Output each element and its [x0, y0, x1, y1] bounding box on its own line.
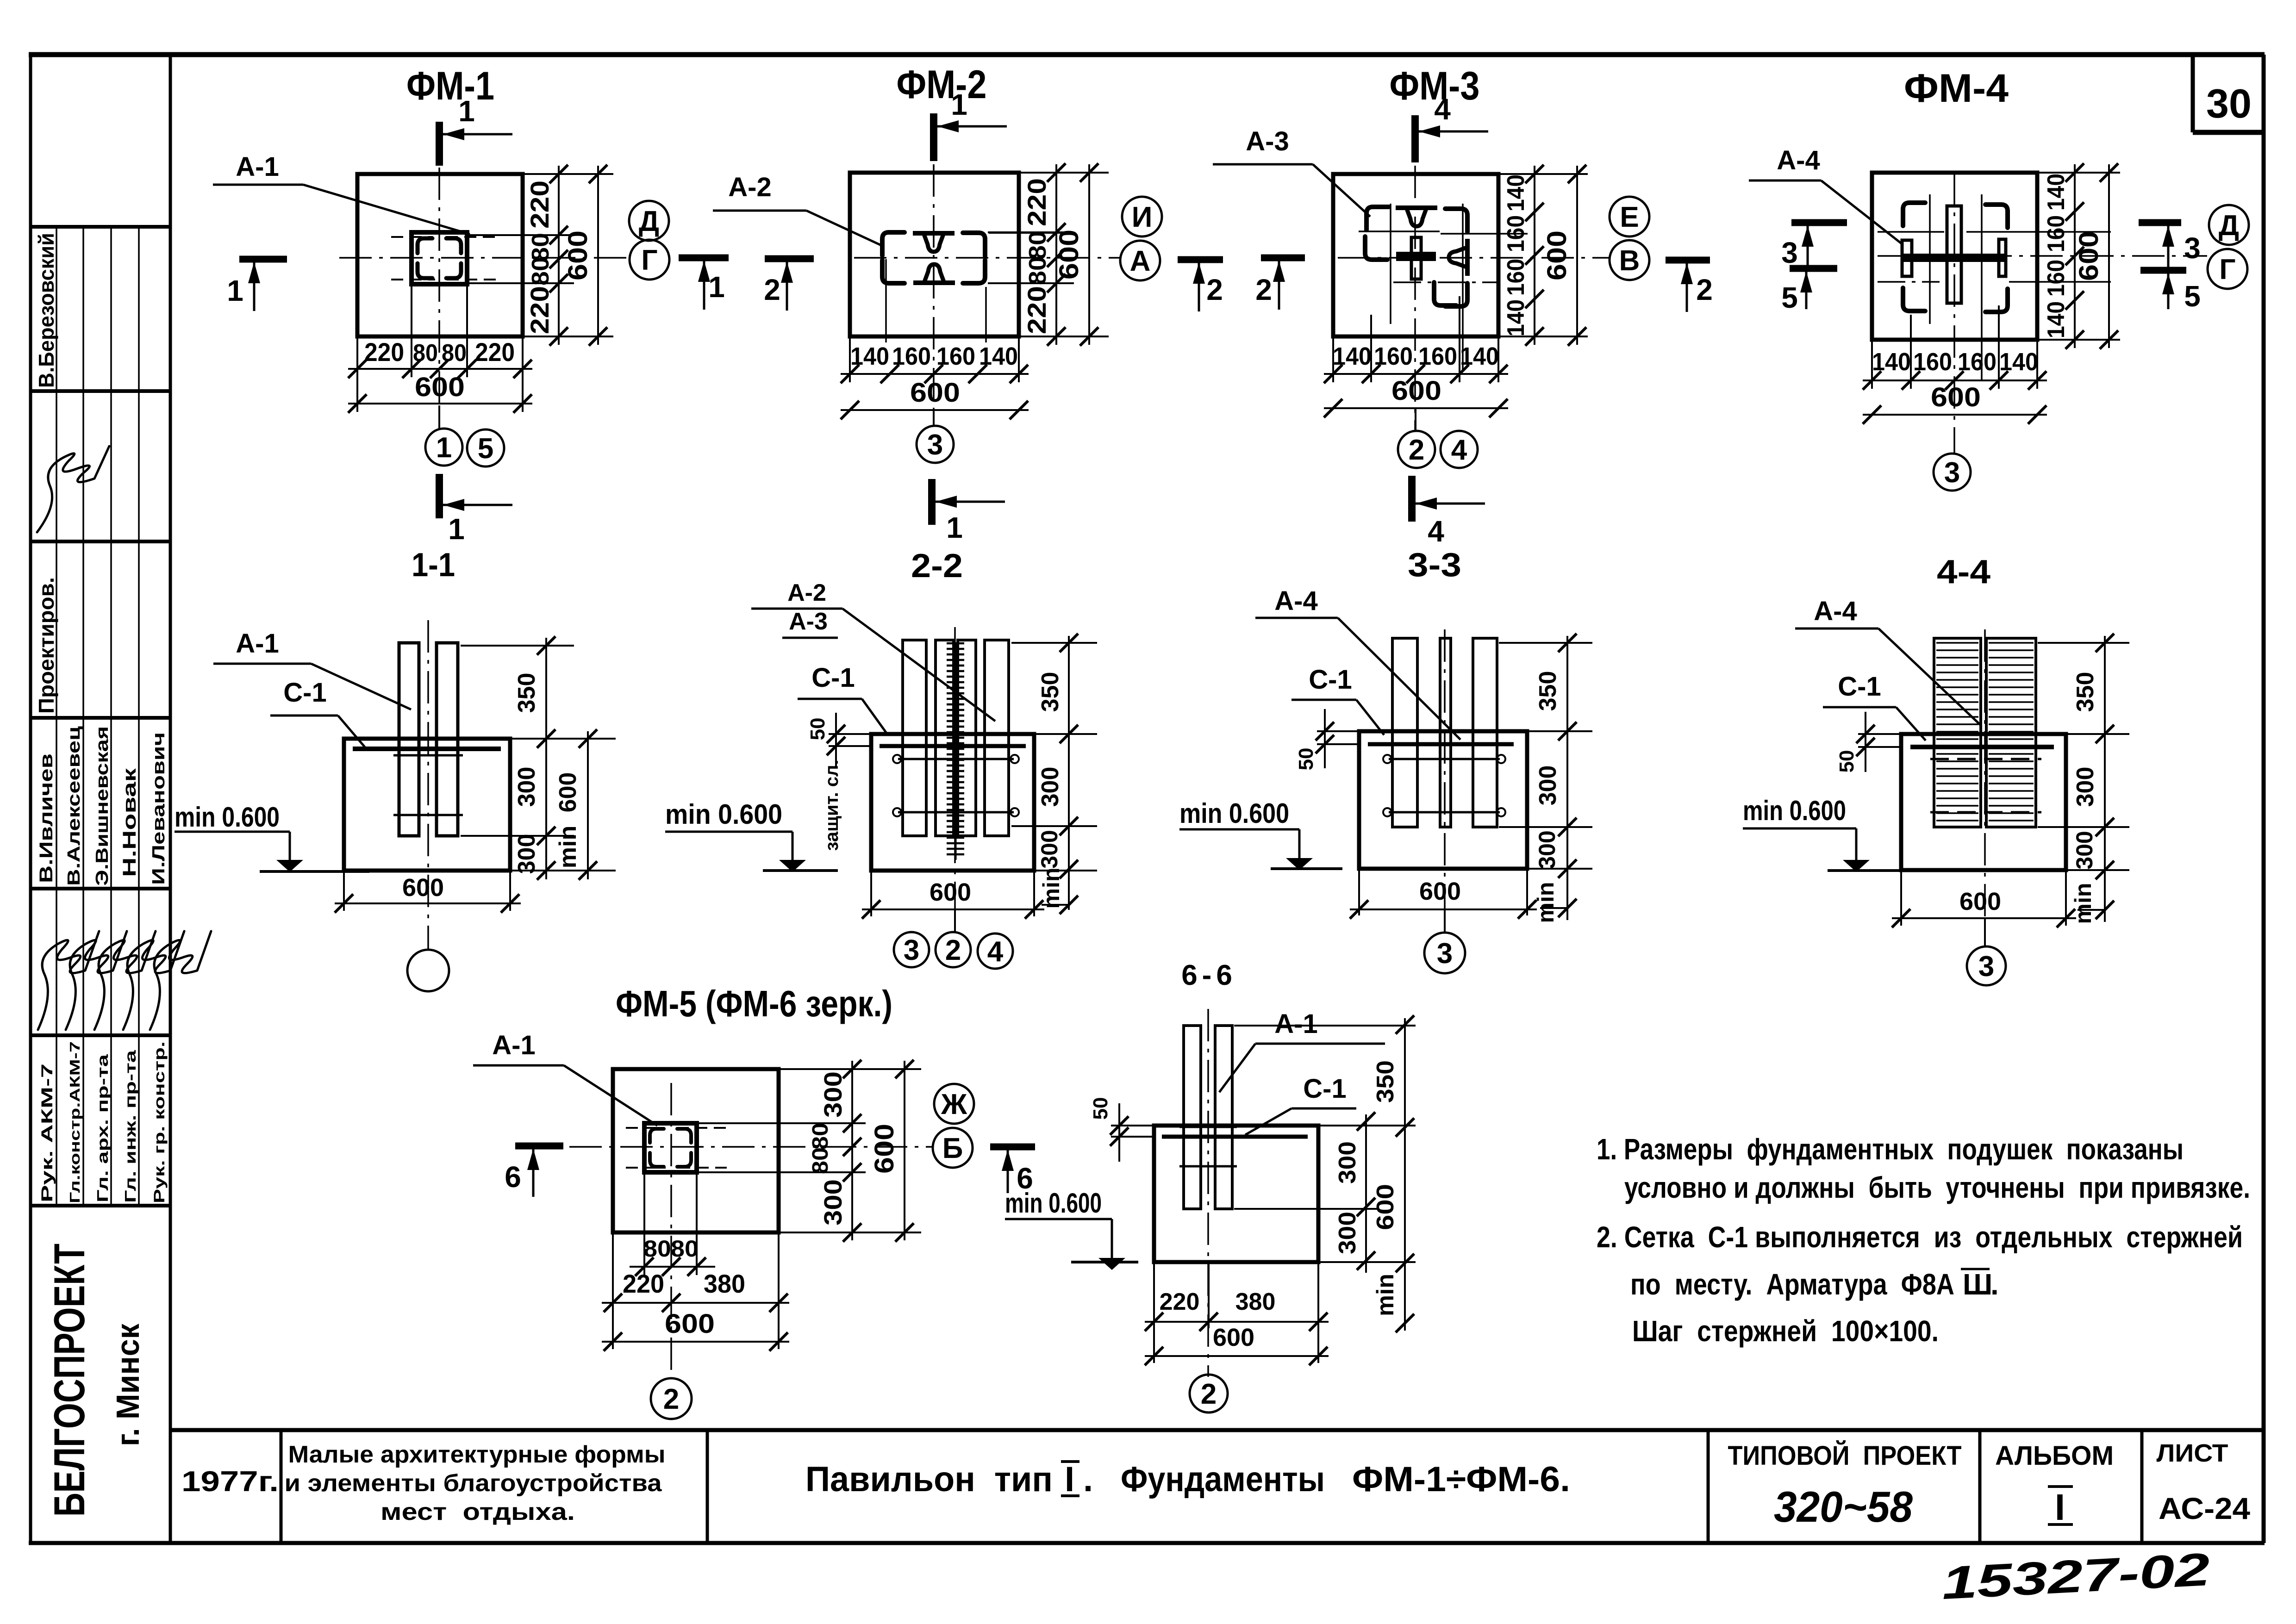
title block year 1977	[181, 1466, 279, 1498]
section 2-2 view	[0, 0, 0, 0]
svg-text:350: 350	[1535, 671, 1561, 711]
svg-text:160: 160	[1374, 342, 1413, 370]
svg-text:Павильон тип: Павильон тип	[805, 1460, 1053, 1499]
section title 4-4	[1937, 554, 1990, 591]
1-1 anchor bars A-1	[393, 643, 463, 836]
4-4 ribbed anchor bars A-4	[1930, 638, 2041, 827]
svg-text:С-1: С-1	[283, 678, 326, 708]
FM-3 section cut 4 bottom	[1412, 476, 1485, 548]
svg-text:Гл.констр.АКМ-7: Гл.констр.АКМ-7	[67, 1041, 83, 1203]
3-3 anchor bars A-4	[1383, 638, 1505, 827]
section title 2-2	[911, 548, 963, 585]
3-3 right dim line 350-300-300-min	[1533, 634, 1577, 923]
svg-text:г. Минск: г. Минск	[110, 1323, 146, 1446]
svg-text:140: 140	[2043, 301, 2070, 338]
FM-3 leader A-3	[1213, 126, 1370, 217]
svg-text:50: 50	[1295, 748, 1317, 771]
svg-text:160: 160	[1418, 342, 1457, 370]
svg-text:по месту. Арматура Ф8А: по месту. Арматура Ф8А	[1630, 1268, 1954, 1301]
svg-text:350: 350	[2072, 672, 2099, 712]
svg-text:мест отдыха.: мест отдыха.	[381, 1499, 575, 1525]
svg-text:3: 3	[927, 429, 943, 461]
section title 3-3	[1408, 547, 1461, 584]
svg-text:1: 1	[951, 88, 967, 121]
section 3-3 view	[0, 0, 0, 0]
svg-text:I: I	[1065, 1460, 1074, 1499]
svg-text:80: 80	[527, 257, 554, 286]
FM-1 section cut 1 top	[439, 94, 512, 166]
svg-text:min 0.600: min 0.600	[1179, 798, 1289, 829]
FM-3 anchor A-3	[1365, 207, 1467, 306]
svg-text:220: 220	[623, 1269, 664, 1298]
svg-text:и элементы благоустройства: и элементы благоустройства	[285, 1470, 662, 1497]
svg-text:600: 600	[1931, 382, 1981, 412]
svg-text:380: 380	[1235, 1288, 1276, 1315]
6-6 right dim line 350-600-min	[1372, 1015, 1414, 1332]
FM-1 title	[406, 64, 494, 108]
svg-text:Ш: Ш	[1963, 1268, 1992, 1301]
svg-text:2: 2	[945, 934, 961, 966]
svg-text:защит. сл.: защит. сл.	[822, 759, 842, 851]
svg-text:min 0.600: min 0.600	[665, 799, 782, 830]
FM-1 centerlines	[339, 168, 629, 429]
svg-text:1: 1	[227, 274, 243, 307]
strip org Belgosproekt Minsk	[45, 1244, 146, 1517]
FM-1 bottom dim line 220-80-80-220	[348, 337, 532, 378]
FM-3 bottom dim extension lines	[1333, 296, 1498, 382]
svg-text:Рук. гр. констр.: Рук. гр. констр.	[151, 1041, 168, 1203]
svg-text:80: 80	[413, 340, 438, 367]
FM-4 right dim line 600	[2074, 163, 2118, 349]
svg-text:140: 140	[1460, 342, 1499, 370]
FM-1 axis circle G	[630, 240, 669, 280]
FM-3 title	[1390, 64, 1480, 108]
plan FM-5	[0, 0, 0, 0]
FM-5 bottom dim line 220-380	[602, 1269, 789, 1312]
svg-text:140: 140	[1872, 348, 1911, 376]
FM-4 pad outline	[1872, 173, 2037, 340]
strip name V.Berezovskiy	[34, 233, 58, 388]
FM-1 right dim line 220-80-80-220	[525, 165, 568, 346]
svg-text:В.Ивличев: В.Ивличев	[36, 753, 56, 883]
svg-text:А-4: А-4	[1777, 145, 1820, 175]
FM-2 position circle 3	[917, 410, 954, 463]
title block list AC-24	[2157, 1439, 2251, 1525]
svg-text:ФМ-2: ФМ-2	[897, 62, 987, 107]
plan FM-1	[0, 0, 0, 0]
strip job titles	[38, 1041, 168, 1203]
FM-2 axis circle I	[1122, 197, 1162, 236]
svg-text:350: 350	[1372, 1060, 1399, 1103]
FM-5 right dim extension lines	[699, 1069, 921, 1232]
svg-text:600: 600	[555, 772, 581, 813]
FM-5 bottom dim line 600	[602, 1309, 789, 1351]
svg-text:50: 50	[1089, 1097, 1112, 1120]
6-6 bottom dim line 220-380	[1145, 1262, 1329, 1363]
svg-text:600: 600	[1372, 1184, 1399, 1230]
handwritten archive number 15327-02	[1940, 1543, 2211, 1609]
FM-1 section cut 1 left	[227, 259, 287, 311]
svg-text:min: min	[1533, 882, 1559, 923]
FM-2 section cut 1 top	[934, 88, 1007, 161]
FM-4 section cut 3 right	[2139, 223, 2201, 271]
FM-2 anchor A-2	[882, 232, 1074, 283]
svg-text:300: 300	[1334, 1212, 1361, 1254]
svg-text:6-6: 6-6	[1181, 959, 1237, 991]
svg-text:300: 300	[819, 1071, 847, 1118]
FM-2 centerlines	[854, 164, 1120, 426]
svg-text:220: 220	[1160, 1288, 1200, 1315]
6-6 ground level min 0.600	[1005, 1188, 1138, 1270]
1-1 leader C-1	[270, 678, 365, 747]
6-6 leader C-1	[1245, 1074, 1356, 1135]
2-2 leader A-2 A-3	[751, 579, 995, 721]
svg-text:80: 80	[671, 1236, 699, 1262]
2-2 leader C-1	[798, 663, 888, 735]
FM-5 section cut 6 left	[505, 1146, 563, 1197]
FM-5 leader A-1	[473, 1030, 657, 1126]
FM-2 section cut 2 left	[764, 259, 814, 311]
svg-text:3: 3	[904, 934, 919, 966]
6-6 right dim line 300-300	[1334, 1112, 1375, 1273]
FM-1 right dim line 600	[563, 165, 607, 346]
FM-5 anchor A-1	[626, 1123, 727, 1172]
FM-1 bottom dim line 600	[348, 372, 532, 413]
section 4-4 view	[0, 0, 0, 0]
FM-2 section cut 2 right	[1178, 260, 1223, 311]
svg-text:А-4: А-4	[1274, 586, 1317, 616]
svg-text:1: 1	[458, 94, 475, 128]
2-2 right dim line 350-300-300-min	[1036, 634, 1078, 914]
2-2 anchor bars A-2 A-3	[893, 640, 1019, 836]
svg-text:600: 600	[665, 1309, 715, 1339]
svg-text:БЕЛГОСПРОЕКТ: БЕЛГОСПРОЕКТ	[45, 1244, 94, 1517]
svg-text:300: 300	[1334, 1141, 1361, 1184]
FM-2 right dim line 600	[1054, 163, 1098, 346]
svg-text:АС-24: АС-24	[2159, 1491, 2250, 1525]
svg-text:В.Березовский: В.Березовский	[34, 233, 58, 388]
svg-text:4: 4	[1451, 434, 1467, 466]
svg-text:600: 600	[1054, 230, 1084, 280]
2-2 protective layer dim 50	[806, 713, 869, 851]
svg-text:ТИПОВОЙ ПРОЕКТ: ТИПОВОЙ ПРОЕКТ	[1728, 1441, 1962, 1471]
FM-2 title	[897, 62, 987, 107]
svg-text:А-1: А-1	[492, 1030, 535, 1060]
FM-5 pad outline	[613, 1069, 779, 1232]
svg-text:80: 80	[1024, 256, 1051, 285]
4-4 ground level min 0.600	[1743, 795, 1902, 872]
svg-text:В: В	[1619, 245, 1640, 277]
left title strip grid	[31, 55, 170, 1543]
FM-3 axis circle E	[1610, 197, 1649, 236]
FM-4 axis circle G	[2208, 249, 2247, 289]
notes text	[1597, 1132, 2250, 1348]
FM-4 bottom dim line 600	[1863, 382, 2047, 424]
svg-text:600: 600	[1959, 888, 2001, 915]
FM-4 bottom dim extension lines	[1872, 305, 2037, 389]
svg-text:ФМ-1: ФМ-1	[406, 64, 494, 108]
3-3 position circle 3	[1424, 909, 1465, 973]
svg-text:1: 1	[436, 432, 452, 464]
FM-3 position circle 4	[1441, 431, 1478, 468]
title block project theme text	[285, 1441, 666, 1525]
1-1 centerline	[427, 620, 429, 949]
svg-text:30: 30	[2206, 81, 2252, 126]
2-2 ground level min 0.600	[665, 799, 838, 872]
svg-text:1977г.: 1977г.	[181, 1466, 279, 1498]
strip label Proektirov	[34, 577, 58, 714]
FM-4 title	[1904, 66, 2009, 111]
svg-text:3: 3	[1978, 951, 1994, 983]
svg-text:160: 160	[1503, 215, 1529, 252]
FM-1 position circle 1	[425, 405, 462, 466]
section 6-6 view	[0, 0, 0, 0]
svg-text:600: 600	[415, 372, 465, 402]
FM-3 right dim line 140-160-160-140	[1503, 165, 1544, 346]
svg-text:600: 600	[1419, 877, 1461, 905]
4-4 protective layer dim 50	[1835, 712, 1899, 772]
FM-1 section cut 1 right	[679, 258, 729, 310]
svg-text:Малые архитектурные формы: Малые архитектурные формы	[288, 1441, 666, 1468]
svg-text:4: 4	[987, 936, 1004, 968]
svg-text:350: 350	[1037, 672, 1064, 712]
title block album I	[1995, 1441, 2114, 1528]
svg-text:А-2: А-2	[787, 579, 826, 606]
svg-text:2: 2	[1201, 1378, 1217, 1410]
strip signature scribble	[37, 446, 109, 532]
FM-5 right dim line 600	[869, 1060, 914, 1242]
svg-text:220: 220	[1022, 286, 1051, 334]
2-2 bottom dim line 600	[862, 872, 1044, 919]
svg-text:ФМ-5 (ФМ-6 зерк.): ФМ-5 (ФМ-6 зерк.)	[616, 983, 892, 1024]
FM-1 leader A-1	[213, 152, 470, 234]
svg-text:АЛЬБОМ: АЛЬБОМ	[1995, 1441, 2114, 1471]
svg-text:3: 3	[1781, 236, 1798, 269]
svg-text:140: 140	[1503, 174, 1529, 212]
svg-text:80: 80	[643, 1236, 671, 1262]
FM-5 axis circle Zh	[934, 1084, 974, 1124]
strip designer names	[36, 726, 168, 886]
svg-text:2: 2	[764, 273, 780, 306]
2-2 threaded rod	[947, 643, 964, 860]
svg-text:.: .	[1083, 1460, 1093, 1499]
4-4 leader A-4	[1795, 596, 1981, 726]
svg-text:300: 300	[1535, 765, 1561, 806]
plan FM-2	[0, 0, 0, 0]
svg-text:Гл. инж. пр-та: Гл. инж. пр-та	[122, 1050, 139, 1203]
FM-4 right dim line 140-160-160-140	[2043, 163, 2084, 349]
3-3 ground level min 0.600	[1179, 798, 1342, 870]
svg-text:Гл. арх. пр-та: Гл. арх. пр-та	[94, 1054, 111, 1202]
FM-1 position circle 5	[467, 429, 504, 467]
svg-text:300: 300	[1036, 830, 1062, 868]
svg-text:2-2: 2-2	[911, 548, 963, 585]
1-1 ground level min 0.600	[175, 802, 369, 872]
FM-1 right dim extension lines	[469, 174, 613, 336]
plan FM-4	[0, 0, 0, 0]
1-1 right dim line min 600	[555, 729, 597, 880]
FM-5 title	[616, 983, 892, 1024]
svg-text:А: А	[1130, 245, 1151, 277]
FM-4 axis circle D	[2209, 205, 2249, 245]
svg-text:300: 300	[1037, 767, 1064, 807]
svg-text:160: 160	[1503, 259, 1529, 296]
FM-5 bottom dim line 80-80	[630, 1236, 715, 1276]
svg-text:80: 80	[442, 340, 467, 367]
svg-text:5: 5	[478, 433, 493, 465]
svg-text:300: 300	[2072, 767, 2099, 807]
FM-3 right dim line 600	[1542, 165, 1586, 346]
svg-text:220: 220	[1022, 178, 1051, 226]
svg-text:50: 50	[806, 718, 829, 740]
3-3 leader C-1	[1291, 665, 1384, 735]
FM-3 centerlines	[1338, 166, 1609, 430]
1-1 right dim extension lines	[461, 646, 616, 871]
svg-text:I: I	[2055, 1487, 2065, 1528]
svg-text:min 0.600: min 0.600	[1743, 795, 1846, 826]
6-6 bottom dim line 600	[1145, 1324, 1329, 1365]
svg-text:3: 3	[2184, 231, 2201, 265]
svg-text:А-3: А-3	[789, 608, 828, 635]
svg-text:160: 160	[1913, 348, 1952, 376]
4-4 position circle 3	[1967, 918, 2006, 985]
6-6 anchor bars A-1	[1179, 1026, 1237, 1209]
3-3 footing block	[1359, 731, 1527, 869]
FM-3 section cut 2 right	[1666, 260, 1713, 312]
svg-text:А-3: А-3	[1246, 126, 1289, 156]
svg-text:С-1: С-1	[811, 663, 855, 693]
svg-text:ФМ-4: ФМ-4	[1904, 66, 2009, 111]
svg-text:600: 600	[869, 1124, 899, 1174]
svg-text:Д: Д	[2219, 210, 2239, 242]
svg-text:А-4: А-4	[1814, 596, 1857, 626]
2-2 position circles 3 2 4	[894, 909, 1013, 969]
svg-text:600: 600	[402, 874, 444, 902]
FM-3 section cut 2 left	[1255, 258, 1305, 310]
svg-text:Н.Новак: Н.Новак	[119, 768, 140, 877]
svg-text:600: 600	[930, 878, 971, 906]
FM-4 section cut 5 right	[2140, 270, 2201, 313]
FM-1 section cut 1 bottom	[439, 474, 512, 546]
svg-text:300: 300	[819, 1179, 847, 1226]
3-3 protective layer dim 50	[1295, 709, 1357, 770]
svg-text:140: 140	[979, 342, 1018, 370]
svg-text:600: 600	[910, 378, 960, 408]
svg-text:600: 600	[563, 230, 593, 280]
svg-text:Проектиров.: Проектиров.	[34, 577, 58, 714]
FM-2 pad outline	[850, 173, 1019, 336]
svg-text:.: .	[1990, 1268, 1999, 1301]
3-3 mesh C-1	[1368, 742, 1514, 747]
svg-text:350: 350	[513, 673, 540, 713]
svg-text:160: 160	[2043, 260, 2070, 297]
svg-text:600: 600	[1391, 376, 1441, 406]
title block sheet name	[805, 1460, 1570, 1499]
section title 1-1	[412, 547, 455, 584]
svg-text:300: 300	[2071, 831, 2097, 869]
svg-text:80: 80	[1024, 231, 1051, 260]
svg-text:220: 220	[525, 286, 554, 334]
svg-text:С-1: С-1	[1309, 665, 1352, 695]
svg-text:6: 6	[505, 1160, 521, 1194]
FM-4 bottom dim line 140-160-160-140	[1863, 348, 2047, 390]
svg-text:С-1: С-1	[1838, 672, 1881, 702]
2-2 right dim extension lines	[1011, 643, 1097, 871]
svg-text:3: 3	[1944, 457, 1960, 489]
2-2 footing block	[871, 734, 1034, 871]
FM-1 bottom dim extension lines	[357, 286, 523, 412]
FM-3 bottom dim line 140-160-160-140	[1324, 342, 1508, 383]
FM-2 axis circle A	[1120, 241, 1160, 280]
svg-text:Е: Е	[1620, 201, 1639, 233]
svg-text:4: 4	[1428, 515, 1444, 548]
svg-text:Фундаменты: Фундаменты	[1121, 1460, 1325, 1499]
svg-text:2: 2	[1255, 273, 1272, 306]
sheet number box 30	[2193, 56, 2263, 132]
2-2 centerline	[954, 627, 956, 928]
svg-text:1: 1	[946, 511, 963, 544]
svg-text:5: 5	[1781, 281, 1798, 314]
FM-4 section cut 5 left	[1781, 268, 1837, 314]
4-4 bottom dim line 600	[1892, 872, 2076, 927]
svg-text:ЛИСТ: ЛИСТ	[2157, 1439, 2228, 1467]
svg-text:А-1: А-1	[236, 152, 279, 182]
svg-text:5: 5	[2184, 280, 2201, 313]
3-3 centerline	[1444, 629, 1446, 930]
svg-text:600: 600	[1542, 230, 1572, 280]
plan FM-3	[0, 0, 0, 0]
svg-text:условно и должны быть уточне: условно и должны быть уточнены при привя…	[1624, 1171, 2250, 1204]
svg-text:2: 2	[1206, 273, 1223, 306]
svg-text:300: 300	[513, 767, 540, 807]
svg-text:4: 4	[1434, 93, 1451, 126]
svg-text:600: 600	[1213, 1324, 1254, 1351]
svg-text:Г: Г	[641, 244, 657, 276]
6-6 leader A-1	[1219, 1009, 1385, 1092]
svg-text:80: 80	[808, 1123, 833, 1150]
6-6 mesh C-1	[1162, 1135, 1308, 1139]
svg-text:3: 3	[1437, 938, 1453, 970]
svg-text:2. Сетка С-1 выполняется из: 2. Сетка С-1 выполняется из отдельных ст…	[1597, 1220, 2243, 1254]
1-1 position circle empty	[407, 950, 449, 991]
svg-text:1. Размеры фундаментных поду: 1. Размеры фундаментных подушек показаны	[1597, 1132, 2184, 1166]
4-4 right dim line 350-300-300-min	[2070, 634, 2114, 924]
svg-text:160: 160	[892, 342, 931, 370]
6-6 footing block	[1154, 1126, 1318, 1262]
FM-3 position circle 2	[1398, 408, 1435, 468]
svg-text:4-4: 4-4	[1937, 554, 1990, 591]
4-4 mesh C-1	[1910, 745, 2054, 749]
FM-4 anchor A-4	[1902, 203, 2008, 312]
FM-2 right dim extension lines	[988, 173, 1109, 336]
svg-text:320~58: 320~58	[1774, 1482, 1913, 1531]
svg-text:220: 220	[475, 337, 515, 367]
FM-2 section cut 1 bottom	[932, 479, 1005, 544]
3-3 leader A-4	[1255, 586, 1460, 740]
FM-4 section cut 3 left	[1781, 223, 1847, 272]
svg-text:600: 600	[2074, 231, 2104, 281]
svg-text:140: 140	[850, 342, 889, 370]
FM-1 pad outline	[357, 174, 523, 336]
FM-1 anchor A-1	[391, 232, 500, 284]
svg-text:140: 140	[1503, 299, 1529, 336]
svg-text:ФМ-1÷ФМ-6.: ФМ-1÷ФМ-6.	[1352, 1460, 1570, 1499]
FM-2 leader A-2	[713, 172, 883, 246]
svg-text:1: 1	[708, 270, 725, 304]
FM-5 bottom dim extension lines	[613, 1174, 779, 1349]
FM-5 section cut 6 right	[990, 1147, 1035, 1195]
svg-text:С-1: С-1	[1303, 1074, 1346, 1104]
